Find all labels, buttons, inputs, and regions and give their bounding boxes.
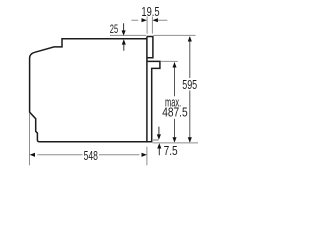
7.5 dim stems bbox=[158, 127, 160, 156]
control panel box bbox=[147, 37, 153, 58]
gray ref line handle top (487.5 top) bbox=[160, 60, 177, 62]
arrowhead 595 bottom bbox=[188, 137, 192, 142]
svg-text:595: 595 bbox=[182, 77, 197, 92]
19.5 extension lines bbox=[147, 17, 152, 34]
487.5 dim line bbox=[174, 63, 176, 138]
arrowhead 7.5 up bbox=[157, 143, 161, 148]
25 dim stems bbox=[123, 23, 125, 51]
19.5 dim line tails bbox=[131, 19, 167, 21]
svg-text:548: 548 bbox=[84, 148, 98, 163]
svg-text:487.5: 487.5 bbox=[162, 105, 188, 120]
548 extension lines bbox=[30, 113, 147, 165]
arrowhead 487.5 top bbox=[172, 62, 176, 67]
svg-text:25: 25 bbox=[110, 22, 119, 36]
595 dim line bbox=[189, 37, 191, 142]
arrowhead 548 left bbox=[30, 153, 35, 157]
arrowhead 548 right bbox=[142, 153, 147, 157]
arrowhead 595 top bbox=[188, 36, 192, 41]
svg-text:19.5: 19.5 bbox=[141, 4, 159, 19]
arrowhead 19.5 right bbox=[153, 18, 158, 22]
arrowhead 7.5 down bbox=[157, 134, 161, 139]
arrowhead 25 down bbox=[122, 30, 126, 35]
arrowhead 25 up bbox=[122, 39, 126, 44]
oven body outline bbox=[30, 39, 153, 142]
fascia back line (body front) bbox=[146, 37, 148, 142]
arrowhead 19.5 left bbox=[142, 18, 147, 22]
svg-text:7.5: 7.5 bbox=[164, 143, 178, 158]
548 dim line bbox=[38, 154, 140, 156]
door handle and door front bbox=[147, 61, 160, 141]
gray ref line top right (595 top) bbox=[154, 34, 196, 36]
short reference segment above door bottom bbox=[153, 139, 159, 141]
gray ref line 25 left bbox=[110, 34, 146, 36]
arrowhead 487.5 bottom bbox=[172, 137, 176, 142]
gray ref line bottom (door bottom ext) bbox=[153, 142, 198, 144]
